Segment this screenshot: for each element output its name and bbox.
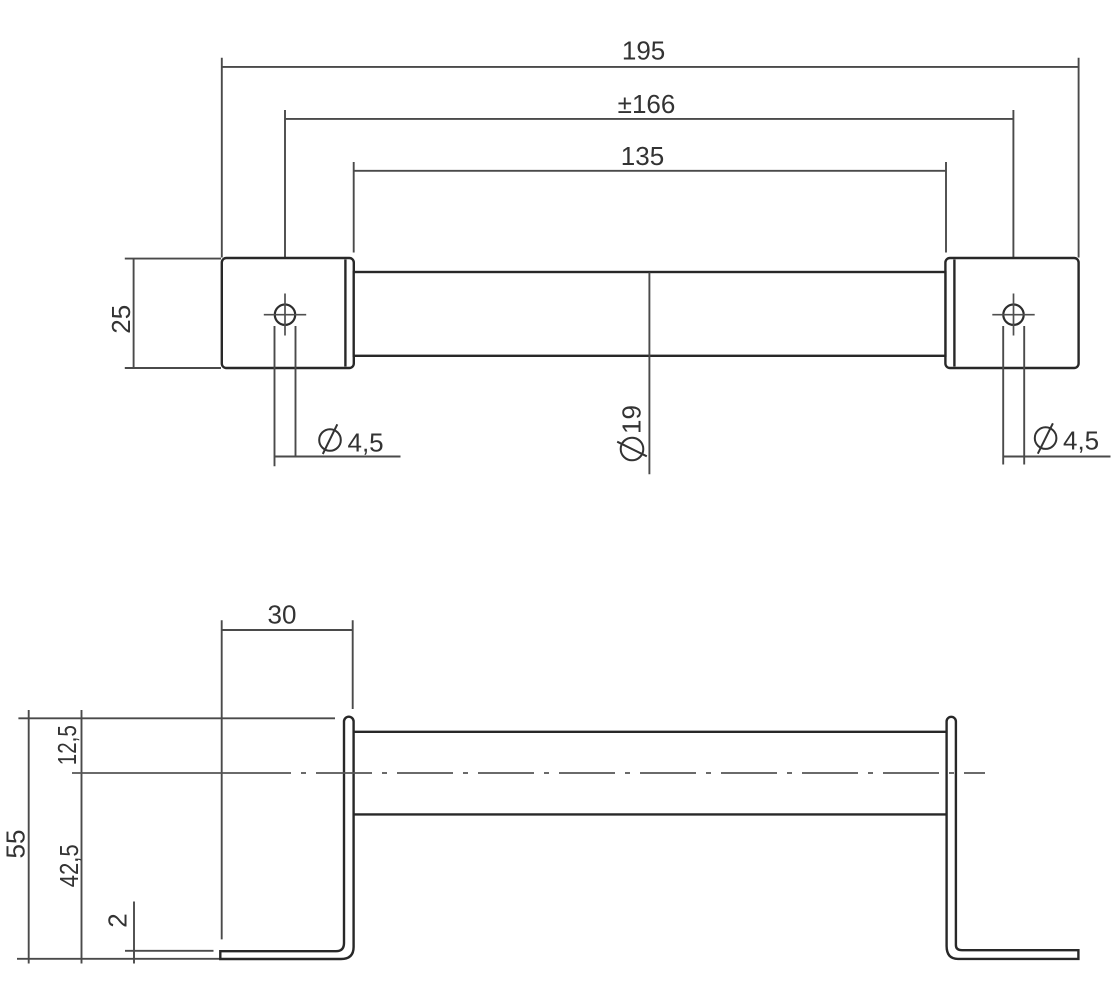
svg-text:4,5: 4,5 bbox=[1063, 426, 1099, 456]
svg-text:30: 30 bbox=[268, 600, 297, 630]
svg-text:19: 19 bbox=[617, 405, 647, 434]
left bracket leg and foot (side view) bbox=[220, 717, 353, 959]
dimension 30 line bbox=[222, 629, 353, 631]
Ø4,5 left leader line bbox=[275, 456, 401, 458]
dimension 195 left extension line bbox=[221, 58, 223, 258]
svg-text:135: 135 bbox=[621, 141, 664, 171]
Ø19 leader line bbox=[648, 273, 650, 475]
left hole vertical crosshair bbox=[284, 294, 286, 336]
shared bottom extension line (55, 42,5 and 2) bbox=[17, 958, 220, 960]
dimension 135 left extension line bbox=[353, 162, 355, 253]
svg-text:12,5: 12,5 bbox=[52, 725, 82, 765]
svg-text:2: 2 bbox=[103, 913, 133, 927]
tube top line (side view) bbox=[354, 731, 947, 733]
Ø4,5 right extension line b bbox=[1023, 326, 1025, 465]
dimension ±166 left extension line bbox=[284, 110, 286, 288]
dimension 55 line bbox=[28, 710, 30, 964]
right mounting block bbox=[945, 258, 1078, 368]
right hole vertical crosshair bbox=[1013, 294, 1015, 336]
axis centerline long dash segment (side view) bbox=[72, 772, 291, 774]
dimension 25 bottom extension line bbox=[125, 367, 221, 369]
tube bottom line (side view) bbox=[354, 813, 947, 815]
left mounting hole bbox=[275, 305, 295, 325]
svg-text:55: 55 bbox=[1, 830, 31, 859]
dimension ±166 right extension line bbox=[1012, 110, 1014, 288]
Ø4,5 right extension line a bbox=[1002, 326, 1004, 465]
right block seam line bbox=[953, 260, 955, 367]
dimension 195 line bbox=[222, 66, 1079, 68]
dimension 12,5 / 42,5 line bbox=[81, 710, 83, 964]
right hole horizontal crosshair bbox=[992, 314, 1034, 316]
Ø4,5 left extension line b bbox=[295, 326, 297, 457]
axis centerline dash-dot segment (side view) bbox=[301, 772, 985, 774]
Ø19 diameter symbol and label bbox=[617, 405, 647, 460]
shared top extension line (55 and 12,5) bbox=[18, 717, 335, 719]
svg-text:4,5: 4,5 bbox=[348, 428, 384, 458]
svg-text:195: 195 bbox=[622, 36, 665, 66]
dimension 135 right extension line bbox=[945, 162, 947, 253]
dimension ±166 line bbox=[285, 118, 1013, 120]
dimension 2 extension line bbox=[125, 950, 214, 952]
Ø4,5 right leader line bbox=[1004, 456, 1111, 458]
dimension 25 line bbox=[133, 259, 135, 369]
dimension 2 line bbox=[133, 902, 135, 964]
handle bar tube (top view) bbox=[354, 272, 946, 356]
svg-text:±166: ±166 bbox=[618, 89, 676, 119]
dimension 30 right extension line bbox=[352, 620, 354, 709]
dimension 30 left extension line bbox=[221, 620, 223, 939]
left block seam line bbox=[344, 260, 346, 367]
Ø4,5 left extension line a bbox=[274, 326, 276, 466]
left mounting block bbox=[222, 258, 354, 368]
Ø4,5 left diameter symbol bbox=[319, 424, 341, 454]
svg-text:42,5: 42,5 bbox=[54, 844, 84, 887]
dimension 25 top extension line bbox=[125, 258, 221, 260]
dimension 135 line bbox=[354, 170, 946, 172]
left hole horizontal crosshair bbox=[264, 314, 306, 316]
right bracket leg and foot (side view) bbox=[947, 717, 1079, 959]
right mounting hole bbox=[1003, 305, 1023, 325]
Ø4,5 right diameter symbol bbox=[1035, 423, 1057, 453]
svg-text:25: 25 bbox=[106, 305, 136, 334]
dimension 195 right extension line bbox=[1078, 58, 1080, 258]
